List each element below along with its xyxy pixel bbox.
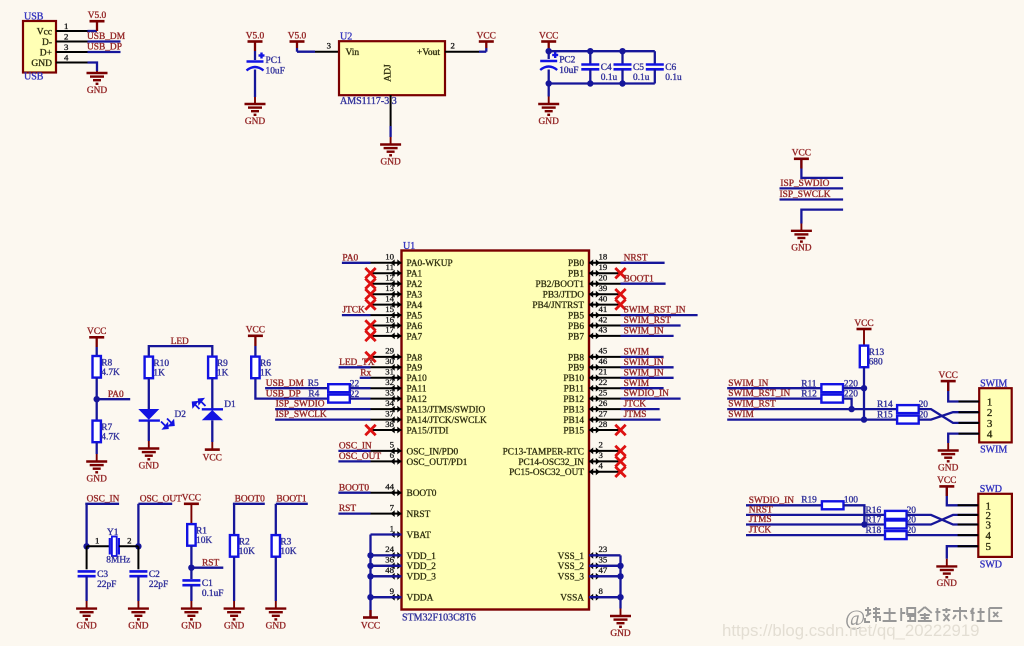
- svg-text:2: 2: [127, 536, 131, 546]
- wire: [254, 42, 256, 52]
- junction: [861, 385, 867, 391]
- SWIM pin 1: [959, 401, 980, 403]
- wire R19 to JTMS: [844, 505, 865, 524]
- ground: [87, 71, 108, 96]
- svg-text:1K: 1K: [217, 369, 229, 379]
- U1 pin 6 OSC_OUT/PD1: [371, 450, 468, 468]
- wire: [548, 70, 550, 97]
- svg-text:PB8: PB8: [568, 353, 584, 363]
- ground: [610, 609, 631, 639]
- wire: [233, 503, 265, 505]
- svg-text:R7: R7: [101, 423, 112, 433]
- svg-text:STM32F103C8T6: STM32F103C8T6: [402, 613, 476, 624]
- svg-text:PA14/JTCK/SWCLK: PA14/JTCK/SWCLK: [407, 416, 488, 426]
- resistor R6: [251, 357, 271, 379]
- U1 pin 44 BOOT0: [371, 482, 437, 500]
- svg-text:4: 4: [599, 461, 604, 471]
- svg-text:GND: GND: [938, 463, 959, 473]
- U1 pin 48 VDD_3: [371, 565, 437, 583]
- wire: [338, 460, 370, 462]
- wire: [746, 514, 885, 516]
- resistor R19: [822, 501, 844, 509]
- svg-text:R9: R9: [217, 359, 228, 369]
- resistor R16: [866, 506, 917, 519]
- power VCC: [87, 327, 106, 337]
- svg-text:33: 33: [385, 387, 394, 397]
- svg-text:PA4: PA4: [407, 301, 423, 311]
- resistor R9: [208, 357, 228, 379]
- svg-text:44: 44: [385, 482, 394, 492]
- crystal Y1 pin 2: [119, 545, 138, 547]
- wire: [190, 546, 192, 579]
- svg-text:VCC: VCC: [361, 622, 380, 632]
- U1 pin 20 PB2/BOOT1: [535, 273, 620, 291]
- resistor R10: [145, 357, 170, 379]
- svg-text:R10: R10: [153, 359, 169, 369]
- svg-text:22pF: 22pF: [97, 580, 116, 590]
- capacitor PC1: [247, 53, 285, 77]
- wire: [727, 408, 897, 410]
- svg-text:5: 5: [986, 541, 992, 553]
- wire: [96, 21, 98, 31]
- svg-text:D+: D+: [40, 48, 52, 58]
- U1 pin 31 PA10: [371, 367, 428, 385]
- svg-text:10K: 10K: [196, 536, 212, 546]
- svg-text:2: 2: [64, 31, 68, 41]
- wire: [621, 51, 623, 64]
- wire: [479, 51, 486, 53]
- svg-text:41: 41: [599, 304, 608, 314]
- svg-text:PA5: PA5: [407, 312, 423, 322]
- svg-text:GND: GND: [128, 621, 149, 631]
- svg-text:PA8: PA8: [407, 353, 423, 363]
- U1 pin 32 PA11: [371, 377, 427, 395]
- junction: [83, 543, 89, 549]
- junction: [861, 416, 867, 422]
- svg-text:PC14-OSC32_IN: PC14-OSC32_IN: [518, 458, 584, 468]
- svg-text:PA2: PA2: [407, 280, 423, 290]
- U2 pin 3 Vin: [315, 51, 339, 53]
- svg-text:14: 14: [385, 293, 394, 303]
- svg-text:5: 5: [390, 440, 395, 450]
- wire: [342, 262, 371, 264]
- U1 pin 16 PA6: [371, 314, 423, 332]
- svg-text:D2: D2: [175, 410, 187, 420]
- svg-text:R17: R17: [866, 516, 882, 526]
- U1 pin 12 PA2: [371, 273, 423, 291]
- U1 pin 22 PB11: [564, 377, 621, 395]
- junction: [587, 48, 593, 54]
- svg-text:42: 42: [599, 314, 608, 324]
- svg-text:3: 3: [599, 450, 604, 460]
- no-connect X: [365, 299, 375, 309]
- svg-text:10: 10: [385, 252, 394, 262]
- junction: [861, 521, 867, 527]
- wire: [86, 546, 88, 569]
- svg-text:R11: R11: [801, 379, 817, 389]
- power stem: [369, 610, 371, 618]
- wire: [360, 377, 371, 379]
- resistor: [328, 395, 350, 403]
- no-connect X: [365, 279, 375, 289]
- wire: [88, 30, 98, 32]
- wire: [780, 198, 844, 200]
- capacitor C4: [581, 63, 617, 83]
- svg-text:AMS1117-3.3: AMS1117-3.3: [340, 96, 397, 107]
- wire VDD rail: [369, 535, 371, 618]
- svg-text:PB2/BOOT1: PB2/BOOT1: [535, 280, 584, 290]
- junction: [848, 406, 854, 412]
- watermark glyph xi: [865, 607, 880, 622]
- wire: [621, 387, 664, 389]
- connector SWIM body: [979, 388, 1012, 442]
- svg-text:PB5: PB5: [568, 312, 584, 322]
- wire R15 to SWIM pin2: [919, 412, 980, 419]
- watermark glyph qu: [989, 608, 1002, 621]
- svg-text:GND: GND: [87, 474, 108, 484]
- svg-text:C1: C1: [202, 579, 213, 589]
- U1 pin 42 PB6: [568, 314, 621, 332]
- svg-text:PC13-TAMPER-RTC: PC13-TAMPER-RTC: [503, 447, 584, 457]
- capacitor PC2: [540, 52, 578, 76]
- svg-text:VCC: VCC: [203, 454, 222, 464]
- svg-text:PB15: PB15: [563, 426, 584, 436]
- svg-text:C6: C6: [665, 63, 676, 73]
- svg-text:17: 17: [385, 325, 394, 335]
- svg-text:9: 9: [390, 586, 395, 596]
- svg-text:22pF: 22pF: [149, 580, 168, 590]
- no-connect X: [365, 425, 375, 435]
- resistor R17: [866, 516, 917, 529]
- wire VCC to ISP: [801, 159, 843, 178]
- power stem: [947, 381, 949, 391]
- svg-text:VCC: VCC: [854, 319, 873, 329]
- resistor: [328, 384, 350, 392]
- wire: [338, 492, 370, 494]
- svg-text:U2: U2: [340, 31, 352, 42]
- svg-text:R6: R6: [260, 359, 271, 369]
- svg-text:PC2: PC2: [559, 56, 575, 66]
- capacitor C5: [614, 63, 650, 83]
- U1 pin 4 PC15-OSC32_OUT: [509, 461, 620, 479]
- wire: [148, 422, 150, 442]
- svg-text:PB11: PB11: [564, 385, 585, 395]
- svg-text:USB: USB: [24, 72, 44, 83]
- svg-text:VBAT: VBAT: [407, 531, 432, 541]
- wire: [746, 523, 885, 525]
- wire: [350, 387, 371, 389]
- svg-text:VSS_3: VSS_3: [558, 573, 585, 583]
- wire VCC to SWIM pin1: [948, 381, 979, 401]
- svg-text:https://blog.csdn.net/qq_20222: https://blog.csdn.net/qq_20222919: [722, 621, 980, 640]
- wire: [371, 533, 402, 535]
- wire: [275, 408, 370, 410]
- svg-text:+Vout: +Vout: [417, 48, 440, 58]
- svg-text:GND: GND: [139, 461, 160, 471]
- U2 pin ADJ lead: [390, 95, 392, 126]
- power V5.0: [88, 11, 107, 21]
- wire: [589, 575, 621, 577]
- svg-text:30: 30: [385, 356, 394, 366]
- svg-text:20: 20: [599, 273, 608, 283]
- MCU U1 body: [402, 251, 590, 610]
- U1 pin 3 PC14-OSC32_IN: [518, 450, 620, 468]
- wire: [254, 336, 256, 346]
- svg-text:38: 38: [385, 419, 394, 429]
- svg-text:ADJ: ADJ: [384, 64, 394, 82]
- svg-text:VSSA: VSSA: [560, 594, 584, 604]
- svg-text:D-: D-: [42, 38, 52, 48]
- svg-text:7: 7: [390, 502, 395, 512]
- wire: [843, 387, 864, 389]
- svg-text:25: 25: [599, 387, 608, 397]
- svg-text:R12: R12: [801, 390, 817, 400]
- svg-text:PA1: PA1: [407, 270, 423, 280]
- svg-text:10K: 10K: [280, 547, 296, 557]
- svg-text:VDD_3: VDD_3: [407, 573, 437, 583]
- U1 pin 33 PA12: [371, 387, 428, 405]
- wire VCC to SWD pin1: [947, 486, 979, 505]
- junction: [587, 80, 593, 86]
- svg-text:PB7: PB7: [568, 332, 584, 342]
- svg-text:19: 19: [599, 262, 608, 272]
- wire ISP to GND: [801, 210, 843, 224]
- svg-text:R16: R16: [866, 506, 882, 516]
- wire: [549, 50, 655, 52]
- U1 pin 8 VSSA: [560, 586, 620, 604]
- svg-text:R19: R19: [801, 495, 817, 505]
- svg-text:VCC: VCC: [182, 494, 201, 504]
- SWIM pin 4: [959, 433, 980, 435]
- svg-text:VCC: VCC: [937, 476, 956, 486]
- svg-text:V5.0: V5.0: [246, 31, 265, 41]
- no-connect X: [615, 268, 625, 278]
- svg-text:VSS_2: VSS_2: [558, 562, 585, 572]
- power VCC: [246, 326, 265, 336]
- wire: [233, 504, 235, 535]
- svg-text:VCC: VCC: [539, 31, 558, 41]
- svg-text:D1: D1: [224, 400, 236, 410]
- svg-text:16: 16: [385, 314, 394, 324]
- wire: [339, 366, 371, 368]
- svg-text:GND: GND: [31, 59, 52, 69]
- wire: [137, 504, 139, 547]
- U1 pin 30 PA9: [371, 356, 423, 374]
- wire: [275, 504, 277, 535]
- svg-text:PA15/JTDI: PA15/JTDI: [407, 426, 449, 436]
- wire: [485, 42, 487, 49]
- svg-text:PA10: PA10: [407, 374, 428, 384]
- U1 pin 45 PB8: [568, 346, 621, 364]
- junction: [367, 563, 373, 569]
- wire: [746, 534, 885, 536]
- U1 pin 27 PB14: [563, 408, 620, 426]
- watermark glyph shu: [953, 607, 967, 621]
- U1 pin 25 PB12: [563, 387, 620, 405]
- power VCC: [854, 319, 873, 329]
- power VCC: [477, 31, 496, 41]
- svg-text:1: 1: [95, 536, 99, 546]
- svg-text:VCC: VCC: [792, 149, 811, 159]
- svg-text:VDDA: VDDA: [407, 594, 434, 604]
- ground: [128, 601, 149, 631]
- SWD pin 4: [958, 534, 979, 536]
- resistor R13: [860, 346, 885, 368]
- wire: [727, 397, 821, 399]
- U1 pin 39 PB3/JTDO: [543, 283, 621, 301]
- svg-text:VSS_1: VSS_1: [558, 552, 585, 562]
- wire: [297, 51, 315, 53]
- U1 pin 1 VBAT: [371, 523, 432, 541]
- svg-text:45: 45: [599, 346, 608, 356]
- svg-text:10uF: 10uF: [559, 66, 578, 76]
- svg-text:C3: C3: [97, 570, 108, 580]
- svg-text:VCC: VCC: [87, 327, 106, 337]
- svg-text:GND: GND: [245, 117, 266, 127]
- svg-text:PA9: PA9: [407, 364, 423, 374]
- ground: [936, 559, 957, 589]
- svg-text:GND: GND: [181, 621, 202, 631]
- resistor R7: [93, 421, 121, 443]
- resistor R2: [230, 535, 255, 557]
- wire: [338, 450, 370, 452]
- ground: [938, 443, 959, 473]
- svg-text:R14: R14: [877, 400, 893, 410]
- wire: [780, 187, 844, 189]
- wire: [88, 51, 121, 53]
- svg-text:NRST: NRST: [407, 510, 431, 520]
- wire R16 to SWD pin3: [907, 515, 979, 525]
- svg-text:SWD: SWD: [980, 559, 1002, 570]
- svg-text:3: 3: [64, 42, 69, 52]
- wire LED net: [149, 346, 213, 357]
- svg-text:1: 1: [64, 21, 68, 31]
- junction: [546, 48, 552, 54]
- wire: [621, 418, 661, 420]
- wire: [621, 324, 681, 326]
- crystal Y1: [106, 528, 130, 565]
- svg-text:BOOT0: BOOT0: [407, 489, 437, 499]
- wire: [148, 379, 150, 410]
- svg-text:PB3/JTDO: PB3/JTDO: [543, 291, 585, 301]
- svg-text:GND: GND: [266, 621, 287, 631]
- ground: [791, 224, 812, 254]
- wire: [85, 576, 87, 601]
- wire: [371, 554, 402, 556]
- power VCC: [182, 494, 201, 504]
- wire SWIM pin4 to GND: [948, 434, 979, 443]
- wire: [621, 335, 674, 337]
- svg-text:11: 11: [386, 262, 394, 272]
- svg-text:GND: GND: [224, 621, 245, 631]
- U1 pin 13 PA3: [371, 283, 423, 301]
- wire: [621, 366, 674, 368]
- svg-text:GND: GND: [791, 244, 812, 254]
- wire: [211, 379, 213, 410]
- junction: [94, 396, 100, 402]
- no-connect X: [365, 352, 375, 362]
- watermark glyph ji: [935, 608, 950, 621]
- svg-text:PA7: PA7: [407, 332, 423, 342]
- wire: [371, 575, 402, 577]
- resistor R1: [187, 524, 212, 546]
- watermark glyph tu: [883, 608, 897, 621]
- U1 pin 34 PA13/JTMS/SWDIO: [371, 398, 486, 416]
- U1 pin 24 VDD_1: [371, 544, 437, 562]
- junction: [546, 80, 552, 86]
- svg-text:8: 8: [599, 586, 604, 596]
- resistor R11: [801, 379, 858, 392]
- wire: [85, 504, 87, 547]
- U1 pin 26 PB13: [563, 398, 620, 416]
- svg-text:10uF: 10uF: [266, 67, 285, 77]
- U1 pin 14 PA4: [371, 293, 423, 311]
- svg-text:680: 680: [869, 358, 883, 368]
- watermark glyph jin: [918, 607, 932, 621]
- wire: [96, 337, 98, 347]
- wire R17 to SWD pin2: [907, 515, 979, 525]
- svg-text:PB6: PB6: [568, 322, 584, 332]
- svg-text:29: 29: [385, 346, 394, 356]
- svg-text:PA12: PA12: [407, 395, 428, 405]
- svg-text:1: 1: [390, 523, 394, 533]
- USB pin 2: [56, 41, 88, 43]
- watermark glyph jue: [900, 608, 915, 621]
- wire: [211, 420, 213, 442]
- U1 pin 21 PB10: [563, 367, 620, 385]
- junction: [619, 80, 625, 86]
- ground: [86, 454, 107, 484]
- U1 pin 41 PB5: [568, 304, 621, 322]
- ground: [181, 601, 202, 631]
- svg-text:27: 27: [599, 408, 608, 418]
- svg-text:PB4/JNTRST: PB4/JNTRST: [532, 301, 584, 311]
- svg-text:R15: R15: [877, 411, 893, 421]
- wire R18 to SWD pin4: [907, 534, 979, 536]
- wire VSS rail: [619, 555, 621, 608]
- wire: [190, 504, 192, 524]
- wire: [350, 397, 371, 399]
- wire: [88, 63, 98, 72]
- svg-text:12: 12: [385, 273, 394, 283]
- U1 pin 15 PA5: [371, 304, 423, 322]
- wire: [589, 554, 621, 556]
- svg-text:31: 31: [385, 367, 394, 377]
- SWD pin 5: [958, 545, 979, 547]
- svg-text:28: 28: [599, 419, 608, 429]
- svg-text:2: 2: [599, 440, 603, 450]
- svg-text:SWIM: SWIM: [980, 445, 1007, 456]
- USB pin 1: [56, 30, 88, 32]
- wire: [275, 557, 277, 601]
- wire: [654, 69, 656, 83]
- svg-text:PB10: PB10: [563, 374, 584, 384]
- wire: [727, 387, 821, 389]
- wire: [137, 576, 139, 601]
- svg-text:24: 24: [385, 544, 394, 554]
- svg-text:0.1u: 0.1u: [665, 73, 682, 83]
- ground: [380, 137, 401, 167]
- power VCC: [939, 371, 958, 381]
- resistor R15: [877, 411, 928, 424]
- wire R12 to SWIM_RST: [843, 399, 852, 410]
- svg-text:39: 39: [599, 283, 608, 293]
- wire: [97, 398, 131, 400]
- svg-text:GND: GND: [87, 86, 108, 96]
- USB pin 4: [56, 62, 88, 64]
- svg-text:V5.0: V5.0: [88, 11, 107, 21]
- junction: [617, 594, 623, 600]
